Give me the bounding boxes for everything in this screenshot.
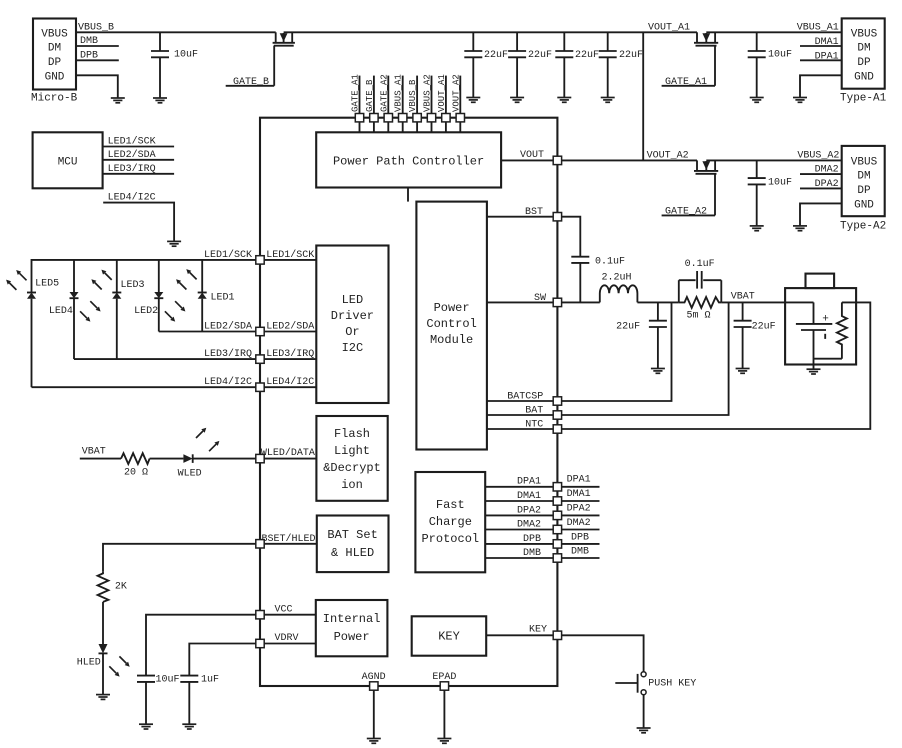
ground C4 — [557, 98, 571, 103]
svg-text:LED4/I2C: LED4/I2C — [204, 376, 252, 388]
resistor R3 2K — [98, 571, 127, 602]
svg-text:10uF: 10uF — [156, 675, 180, 686]
wire VBAT — [721, 301, 785, 303]
wire LED top rail LED1/SCK — [32, 260, 256, 293]
svg-text:2.2uH: 2.2uH — [602, 273, 632, 284]
block Flash Light & Decryption — [316, 416, 387, 501]
inductor L1 2.2uH — [600, 273, 638, 303]
connector J1 Micro-B — [31, 19, 78, 105]
wire VOUT internal — [501, 150, 557, 161]
wire LED3/IRQ internal — [260, 348, 316, 360]
battery pack box BT1 — [785, 274, 856, 365]
resistor R2 20 Ohm — [121, 453, 150, 478]
wire WLED to pin — [193, 458, 256, 460]
capacitor C6 10uF — [748, 32, 792, 97]
svg-text:HLED: HLED — [77, 658, 101, 669]
net label GATE_A1 — [662, 77, 715, 88]
ground C7 — [750, 226, 764, 231]
svg-text:Module: Module — [430, 333, 473, 347]
wire LED4/I2C internal — [260, 376, 316, 388]
light arrows WLED — [196, 428, 219, 452]
wire BAT internal — [487, 406, 558, 417]
svg-text:Micro-B: Micro-B — [31, 93, 78, 105]
svg-text:VBAT: VBAT — [731, 292, 755, 303]
net label GATE_B — [226, 77, 275, 88]
wire DMB stub — [76, 36, 119, 47]
svg-text:2K: 2K — [115, 582, 127, 593]
svg-text:DP: DP — [48, 57, 62, 69]
wire DMA1 stub external — [562, 489, 600, 501]
svg-text:Internal: Internal — [323, 612, 381, 626]
diode HLED — [77, 644, 108, 695]
wire DPA1 stub — [800, 52, 842, 63]
pin squares left edge — [256, 256, 264, 648]
svg-text:22uF: 22uF — [528, 50, 552, 61]
svg-text:Driver: Driver — [331, 309, 374, 323]
capacitor C11 22uF — [734, 302, 776, 368]
svg-text:PUSH KEY: PUSH KEY — [648, 679, 696, 690]
wire PPC to PCM — [407, 188, 409, 202]
svg-text:22uF: 22uF — [616, 322, 640, 333]
wire DMA1 internal — [485, 491, 557, 502]
wire VOUT to VOUT_A2 — [562, 159, 697, 161]
wire KEY external — [562, 635, 644, 671]
wire DMA1 stub — [800, 37, 842, 48]
svg-text:VBUS: VBUS — [851, 29, 878, 41]
wire Micro-B GND — [76, 75, 118, 98]
svg-text:VOUT_A1: VOUT_A1 — [437, 74, 447, 112]
svg-text:Or: Or — [345, 325, 359, 339]
wire DPB stub — [76, 51, 119, 62]
ground Type-A2 — [793, 226, 807, 231]
wire VOUT_A1 to VOUT junction — [642, 32, 644, 160]
wire BSET/HLED internal — [260, 533, 317, 545]
ground C11 — [736, 369, 750, 374]
wire BATCSP external — [562, 302, 672, 401]
ground LED4/I2C — [167, 241, 181, 246]
capacitor C1 10uF — [151, 32, 198, 98]
svg-text:1uF: 1uF — [201, 675, 219, 686]
svg-text:DP: DP — [857, 57, 871, 69]
wire VCC internal — [260, 605, 316, 616]
svg-text:ion: ion — [341, 478, 363, 492]
transistor Q3 (GATE_A2 PMOS) — [694, 160, 718, 215]
svg-text:Fast: Fast — [436, 498, 465, 512]
wire MCU LED1/SCK stub — [103, 136, 175, 148]
svg-text:Power: Power — [434, 301, 470, 315]
svg-text:VOUT_A1: VOUT_A1 — [648, 23, 690, 34]
capacitor C5 22uF — [599, 32, 643, 97]
ground AGND — [367, 739, 381, 744]
resistor R1 5mOhm — [679, 297, 722, 322]
transistor Q1 (GATE_B PMOS) — [273, 32, 295, 86]
svg-text:WLED/DATA: WLED/DATA — [261, 447, 315, 459]
wire NTC internal — [487, 420, 558, 431]
svg-text:10uF: 10uF — [768, 50, 792, 61]
LED5 — [27, 279, 59, 388]
ground Type-A1 — [793, 98, 807, 103]
svg-text:VBUS: VBUS — [41, 29, 68, 41]
ground C1 — [153, 98, 167, 103]
svg-text:GATE_A1: GATE_A1 — [351, 74, 361, 112]
svg-text:LED1/SCK: LED1/SCK — [204, 249, 252, 261]
light arrows LED1 — [176, 269, 197, 289]
wire SW internal — [487, 293, 558, 304]
wire DPA2 internal — [485, 505, 557, 516]
pin squares bottom edge — [370, 682, 449, 690]
svg-text:VOUT: VOUT — [520, 150, 544, 161]
wire LED2/SDA internal — [260, 321, 316, 333]
svg-text:22uF: 22uF — [619, 50, 643, 61]
svg-text:Control: Control — [426, 317, 476, 331]
wire AGND — [362, 672, 386, 739]
svg-text:AGND: AGND — [362, 672, 386, 683]
ground C2 — [466, 98, 480, 103]
capacitor C8 0.1uF — [571, 257, 625, 303]
capacitor C7 10uF — [748, 160, 792, 226]
svg-text:LED2: LED2 — [134, 306, 158, 317]
svg-text:10uF: 10uF — [768, 178, 792, 189]
svg-text:KEY: KEY — [438, 630, 460, 644]
svg-text:Power Path Controller: Power Path Controller — [333, 155, 484, 169]
svg-text:22uF: 22uF — [752, 322, 776, 333]
svg-text:GATE_B: GATE_B — [365, 79, 375, 112]
wire KEY internal — [486, 625, 557, 636]
svg-text:GND: GND — [45, 72, 65, 84]
LED3 — [112, 260, 144, 359]
wire BATCSP internal — [487, 392, 558, 403]
svg-text:VBUS_B: VBUS_B — [408, 79, 418, 112]
wire LED2/SDA rail — [159, 321, 256, 333]
wire Type-A2 GND — [800, 203, 842, 226]
pin squares top — [355, 114, 464, 122]
battery cell symbol — [785, 302, 832, 369]
pin squares right edge — [553, 156, 561, 639]
svg-text:VBAT: VBAT — [82, 447, 106, 458]
wire NTC external — [562, 302, 871, 429]
wire BST internal — [487, 207, 558, 218]
wire R3 to HLED — [102, 602, 104, 644]
wire BAT external — [562, 302, 729, 415]
capacitor C2 22uF — [464, 32, 508, 97]
ground C3 — [510, 98, 524, 103]
svg-text:DP: DP — [857, 185, 871, 197]
capacitor C9 22uF — [616, 302, 667, 368]
svg-text:GND: GND — [854, 200, 874, 212]
svg-text:DMA2: DMA2 — [567, 518, 591, 529]
push button S1 — [615, 672, 696, 728]
wire VBUS_A1 — [706, 31, 841, 33]
light arrows LED4 — [80, 301, 101, 321]
svg-text:GND: GND — [854, 72, 874, 84]
wire LED3/IRQ rail — [74, 348, 256, 360]
svg-text:0.1uF: 0.1uF — [595, 257, 625, 268]
wire VCC external — [146, 615, 256, 676]
svg-text:+: + — [822, 314, 829, 326]
svg-text:VOUT_A2: VOUT_A2 — [451, 74, 461, 112]
svg-text:&Decrypt: &Decrypt — [323, 461, 381, 475]
MCU U2 — [33, 132, 103, 188]
ground battery — [807, 369, 821, 374]
wire DPA2 stub external — [562, 504, 600, 516]
LED1 — [198, 260, 235, 332]
capacitor C10 0.1uF parallel sense — [679, 259, 722, 302]
diode WLED — [178, 454, 202, 479]
ground HLED — [96, 695, 110, 700]
svg-text:Type-A1: Type-A1 — [840, 93, 887, 105]
wire WLED/DATA internal — [260, 447, 316, 459]
wire VOUT top rail — [284, 31, 697, 33]
wire DMB stub external — [562, 547, 600, 559]
ground Micro-B — [111, 98, 125, 103]
ground C6 — [750, 98, 764, 103]
chip U1 outline — [260, 118, 557, 686]
svg-text:Light: Light — [334, 444, 370, 458]
svg-text:Flash: Flash — [334, 427, 370, 441]
svg-text:LED4/I2C: LED4/I2C — [266, 376, 314, 388]
op-amp block Power Path Controller — [316, 132, 501, 187]
svg-text:VBUS_A2: VBUS_A2 — [797, 151, 839, 162]
wire EPAD — [432, 672, 456, 739]
ground C12 — [139, 724, 153, 729]
svg-text:0.1uF: 0.1uF — [685, 259, 715, 270]
wire MCU LED4/I2C stub — [103, 192, 174, 242]
block Internal Power — [316, 600, 388, 656]
svg-text:20 Ω: 20 Ω — [124, 468, 148, 479]
wire SW to VBAT — [637, 301, 678, 303]
ground C13 — [182, 724, 196, 729]
wire VDRV internal — [260, 633, 316, 644]
wire MCU LED2/SDA stub — [103, 149, 175, 161]
svg-text:VBUS: VBUS — [851, 157, 878, 169]
wire DMA2 stub external — [562, 518, 600, 530]
wire Type-A1 GND — [800, 75, 842, 97]
svg-text:Power: Power — [334, 630, 370, 644]
light arrows HLED — [109, 656, 129, 676]
svg-text:10uF: 10uF — [174, 50, 198, 61]
svg-text:LED4: LED4 — [49, 306, 73, 317]
svg-text:GATE_A2: GATE_A2 — [379, 74, 389, 112]
wire LED4/I2C rail — [32, 376, 256, 388]
ground C5 — [601, 98, 615, 103]
svg-text:KEY: KEY — [529, 625, 547, 636]
light arrows LED5 — [6, 270, 26, 290]
svg-text:LED: LED — [342, 293, 364, 307]
ground push button — [637, 728, 651, 733]
svg-text:DM: DM — [857, 171, 870, 183]
wire VDRV external — [189, 644, 256, 676]
svg-text:DPA1: DPA1 — [517, 477, 541, 488]
pin stubs top row with rotated net labels — [351, 74, 462, 132]
svg-text:DPA2: DPA2 — [567, 504, 591, 515]
svg-text:Charge: Charge — [429, 515, 472, 529]
svg-text:VOUT_A2: VOUT_A2 — [647, 151, 689, 162]
svg-text:VBUS_A1: VBUS_A1 — [797, 23, 839, 34]
svg-text:DMA1: DMA1 — [567, 489, 591, 500]
svg-text:DPA1: DPA1 — [567, 475, 591, 486]
wire VBUS_B — [76, 31, 276, 33]
svg-text:VBUS_A1: VBUS_A1 — [394, 74, 404, 112]
svg-text:DM: DM — [857, 43, 870, 55]
wire DPB stub external — [562, 533, 600, 544]
connector J2 Type-A1 — [840, 18, 887, 104]
svg-text:DMB: DMB — [571, 547, 589, 558]
capacitor C4 22uF — [555, 32, 599, 97]
wire DPB internal — [485, 534, 557, 545]
svg-text:LED1: LED1 — [211, 293, 235, 304]
svg-text:DM: DM — [48, 43, 61, 55]
svg-text:Type-A2: Type-A2 — [840, 221, 886, 233]
capacitor C3 22uF — [508, 32, 552, 97]
wire DPA1 stub external — [562, 475, 600, 487]
wire DMB internal — [485, 548, 557, 559]
svg-text:22uF: 22uF — [575, 50, 599, 61]
wire DPA1 internal — [485, 477, 557, 488]
wire DPA2 stub — [800, 179, 842, 190]
capacitor C13 1uF — [180, 675, 219, 725]
svg-text:& HLED: & HLED — [331, 546, 374, 560]
wire MCU LED3/IRQ stub — [103, 163, 175, 175]
block Power Control Module — [416, 202, 487, 450]
light arrows LED3 — [91, 270, 111, 290]
svg-text:VDRV: VDRV — [275, 633, 299, 644]
wire BSET/HLED external — [103, 544, 256, 571]
LED4 — [49, 260, 79, 359]
svg-text:5m Ω: 5m Ω — [687, 311, 711, 322]
svg-text:BAT Set: BAT Set — [327, 528, 377, 542]
connector J3 Type-A2 — [840, 146, 886, 233]
block Fast Charge Protocol — [415, 472, 485, 572]
wire SW external — [562, 301, 600, 303]
capacitor C12 10uF — [137, 675, 180, 725]
svg-text:DPB: DPB — [571, 533, 589, 544]
block LED Driver Or I2C — [316, 246, 388, 404]
wire LED1/SCK internal — [260, 249, 316, 261]
svg-text:Protocol: Protocol — [421, 532, 479, 546]
svg-text:EPAD: EPAD — [432, 672, 456, 683]
block BAT Set & HLED — [317, 516, 389, 573]
svg-text:I2C: I2C — [342, 341, 364, 355]
net label GATE_A2 — [662, 207, 715, 218]
ground C9 — [651, 369, 665, 374]
ground EPAD — [437, 739, 451, 744]
thermistor RT1 — [814, 302, 847, 358]
svg-text:VBUS_A2: VBUS_A2 — [423, 74, 433, 112]
wire BST external — [562, 217, 581, 257]
svg-text:LED3: LED3 — [121, 280, 145, 291]
wire VBAT to R2 — [80, 458, 121, 460]
svg-text:22uF: 22uF — [484, 50, 508, 61]
svg-text:MCU: MCU — [58, 157, 78, 169]
block KEY — [412, 616, 487, 655]
svg-text:WLED: WLED — [178, 469, 202, 480]
light arrows LED2 — [165, 301, 186, 321]
svg-text:LED5: LED5 — [35, 279, 59, 290]
wire DMA2 internal — [485, 520, 557, 531]
wire DMA2 stub — [800, 165, 842, 176]
wire R2 to WLED — [150, 458, 184, 460]
LED2 — [134, 260, 163, 332]
transistor Q2 (GATE_A1 PMOS) — [694, 32, 718, 86]
wire VBUS_A2 — [706, 159, 841, 161]
